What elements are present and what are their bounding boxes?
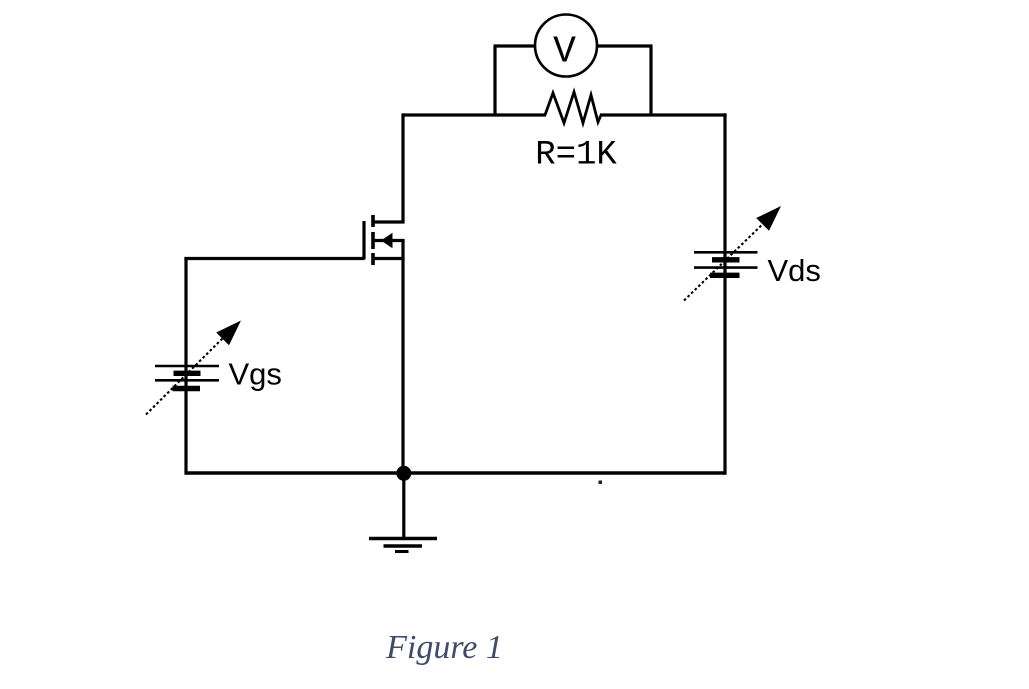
wire drain vertical xyxy=(401,113,404,222)
ground bar 1 xyxy=(369,537,437,541)
battery Vds plate long bottom xyxy=(694,266,758,269)
voltmeter U1 circle xyxy=(535,15,597,77)
wire source vertical xyxy=(401,241,404,474)
transistor Q1 drain stub xyxy=(373,220,405,223)
ground bar 3 xyxy=(395,550,409,553)
battery Vgs plate long top xyxy=(155,365,219,368)
battery Vgs plate long bottom xyxy=(155,379,219,382)
node junction dot xyxy=(396,466,411,481)
battery Vgs plate short thick 2 xyxy=(173,386,201,391)
transistor Q1 channel bar top xyxy=(371,215,375,227)
svg-text:Figure 1: Figure 1 xyxy=(385,629,503,666)
wire gate horizontal xyxy=(184,257,364,260)
transistor Q1 body stub xyxy=(374,239,405,242)
ground bar 2 xyxy=(384,544,423,547)
battery Vds variable arrow shaft xyxy=(684,217,770,301)
wire voltmeter loop top left xyxy=(494,44,537,47)
svg-text:Vgs: Vgs xyxy=(229,357,282,392)
svg-text:Vds: Vds xyxy=(768,253,821,288)
battery Vgs variable arrowhead xyxy=(216,321,241,346)
wire ground vertical xyxy=(402,473,405,538)
transistor Q1 gate bar xyxy=(362,221,365,260)
svg-text:V: V xyxy=(553,31,576,74)
battery Vds plate short thick 1 xyxy=(712,257,740,262)
wire voltmeter loop left vertical xyxy=(493,46,496,115)
transistor Q1 channel bar middle xyxy=(371,232,375,249)
transistor Q1 source stub xyxy=(374,257,405,260)
wire left branch vertical xyxy=(184,257,187,475)
wire top left segment xyxy=(403,113,546,116)
battery Vgs plate short thick 1 xyxy=(174,371,201,376)
wire voltmeter loop top right xyxy=(596,44,653,47)
resistor R1 xyxy=(545,92,601,123)
wire top right segment xyxy=(600,113,727,116)
wire right branch vertical xyxy=(723,113,726,474)
transistor Q1 channel bar bottom xyxy=(371,253,375,265)
transistor Q1 body arrow xyxy=(381,233,393,249)
stray dot artifact xyxy=(599,481,603,485)
wire bottom horizontal xyxy=(186,471,725,474)
battery Vgs variable arrow shaft xyxy=(146,331,230,415)
svg-text:R=1K: R=1K xyxy=(535,137,617,175)
battery Vds plate short thick 2 xyxy=(710,273,740,278)
battery Vds variable arrowhead xyxy=(756,206,781,231)
wire voltmeter loop right vertical xyxy=(649,46,652,115)
battery Vds plate long top xyxy=(694,251,758,254)
